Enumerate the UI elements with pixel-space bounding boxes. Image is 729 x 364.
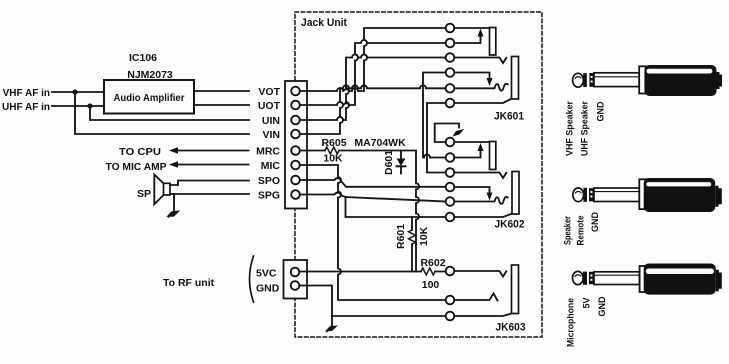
node UHF junction [87,103,92,108]
wire SPG to JK602 rows 5 and 6 [300,193,346,197]
svg-text:VHF AF in: VHF AF in [3,88,50,99]
svg-text:5VC: 5VC [256,268,277,280]
svg-text:JK603: JK603 [496,322,526,334]
svg-text:JK602: JK602 [495,219,525,231]
JK601 contact 3 [446,53,455,62]
svg-text:To RF unit: To RF unit [163,277,215,289]
plug P2 speaker/remote plug [573,178,722,212]
svg-text:Microphone: Microphone [566,298,576,347]
JK603 ring chevron contact [454,294,497,301]
ground (jack unit) [326,326,336,332]
wire VHF input [52,91,104,93]
wire 5VC row to R602 [300,271,446,273]
svg-text:D601: D601 [383,150,395,175]
svg-text:UIN: UIN [262,115,280,127]
JK601 row5 wiper contact [454,84,507,91]
resistor R601 [411,217,413,272]
JK603 contact 1 [446,267,455,276]
connector J1 (jack unit 8-pin) [285,81,307,209]
JK601 row2 up arrow contact [454,34,480,43]
svg-text:R602: R602 [420,257,445,269]
wire VOT to JK601 tip row [300,28,446,91]
svg-text:JK601: JK601 [494,111,524,123]
JK601 contact 4 [446,68,455,77]
resistor R602 [421,268,435,275]
pin VOT [291,87,300,96]
svg-text:R601: R601 [395,224,407,249]
svg-text:10K: 10K [323,153,343,165]
pin GND [291,281,300,290]
svg-text:GND: GND [590,212,600,233]
JK601 chain c4 to JK602 c2 [423,73,446,158]
JK602 contact 4 [446,183,455,192]
pin UIN [291,116,300,125]
pin SPO [291,176,300,185]
JK602 row2 up arrow contact [454,149,480,158]
wire SP minus to SPG [170,193,249,195]
JK601 plug bar [512,57,519,100]
JK602 row4 down arrow contact [454,187,489,195]
wire VOT output [194,90,249,92]
JK603 sleeve row to plug bar [454,314,511,317]
wire SPO to JK602 row4 [300,178,446,187]
svg-text:UHF Speaker: UHF Speaker [580,101,590,156]
JK602 ring bar [490,142,496,170]
pin VIN [291,130,300,139]
svg-text:UOT: UOT [258,100,281,112]
wire UIN to JK601 row3 [300,55,446,121]
svg-text:GND: GND [596,101,606,122]
plug P3 microphone plug [573,264,722,295]
JK603 plug bar [512,265,519,314]
wire arrow to CPU [177,150,249,152]
pin UOT [291,101,300,110]
JK601 row3 tip spring contact [454,58,506,64]
wire UOT to JK601 row2 [300,40,446,105]
svg-text:VOT: VOT [258,86,280,98]
svg-text:SPO: SPO [258,175,280,187]
svg-text:10K: 10K [418,226,430,246]
svg-text:Speaker: Speaker [563,216,573,245]
svg-text:MRC: MRC [256,146,280,158]
pin MRC [291,146,300,155]
wire UOT output [194,104,249,106]
JK602 row6 to plug bar [454,214,512,217]
JK601 contact 6 [446,99,455,108]
JK601 contact 1 [446,24,455,33]
wire arrow to MIC AMP [177,164,249,166]
resistor R605 [325,147,339,154]
JK602 plug bar [512,172,519,215]
wire MRC through R605 down to 5VC row [300,151,419,272]
wire SP plus to SPO [170,181,249,186]
svg-text:TO CPU: TO CPU [119,146,161,158]
JK601 contact 5 [446,84,455,93]
JK601 ring bar [490,28,496,56]
wire VIN to JK601 row5 [300,85,446,134]
svg-text:Audio Amplifier: Audio Amplifier [114,92,185,104]
JK601 contact 2 [446,39,455,48]
JK602 contact 1 [446,138,455,147]
JK603 contact 3 [446,312,455,321]
svg-text:MA704WK: MA704WK [354,137,406,149]
svg-text:VHF Speaker: VHF Speaker [565,101,575,156]
wire VHF to VIN [75,92,249,134]
JK602 bent switch contact c1 [435,124,459,143]
pin MIC [291,161,300,170]
JK602 contact 6 [446,213,455,222]
svg-text:TO MIC AMP: TO MIC AMP [106,161,167,173]
JK602 tip row to ring bar [454,141,489,143]
svg-text:R605: R605 [321,137,346,149]
wire UHF input [52,105,104,107]
svg-text:SP: SP [137,188,151,200]
node VHF junction [72,89,77,94]
svg-text:GND: GND [256,283,280,295]
JK601 row6 to plug bar [454,99,511,103]
svg-text:IC106: IC106 [129,52,157,64]
svg-text:Jack Unit: Jack Unit [301,17,347,29]
wire GND to ground and JK603 sleeve [300,286,333,329]
JK601 row4 down arrow contact [454,73,489,81]
JK603 tip spring contact [454,271,506,277]
svg-text:Remote: Remote [576,216,586,246]
JK602 row3 tip spring contact [454,173,506,179]
Jack Unit dashed border [295,12,542,337]
svg-text:100: 100 [422,279,440,291]
svg-text:SPG: SPG [258,190,280,202]
ground at speaker [173,194,175,212]
wire UHF to UIN [90,106,249,120]
plug P1 VHF/UHF speaker plug [573,65,722,96]
JK603 contact 2 [446,296,455,305]
svg-text:MIC: MIC [261,160,281,172]
svg-text:GND: GND [597,296,607,317]
svg-text:5V: 5V [582,297,592,308]
svg-text:UHF AF in: UHF AF in [2,102,50,113]
pin 5VC [291,268,300,277]
wire MIC down to JK603 ring [300,165,446,300]
pin SPG [291,190,300,199]
JK601 chain c6 to JK602 c3 [427,103,446,173]
JK602 contact 3 [446,168,455,177]
svg-text:VIN: VIN [262,129,280,141]
JK601 tip row to ring bar [454,27,489,29]
JK602 contact 2 [446,153,455,162]
JK602 row5 wiper contact [454,197,507,204]
JK602 contact 5 [446,197,455,206]
